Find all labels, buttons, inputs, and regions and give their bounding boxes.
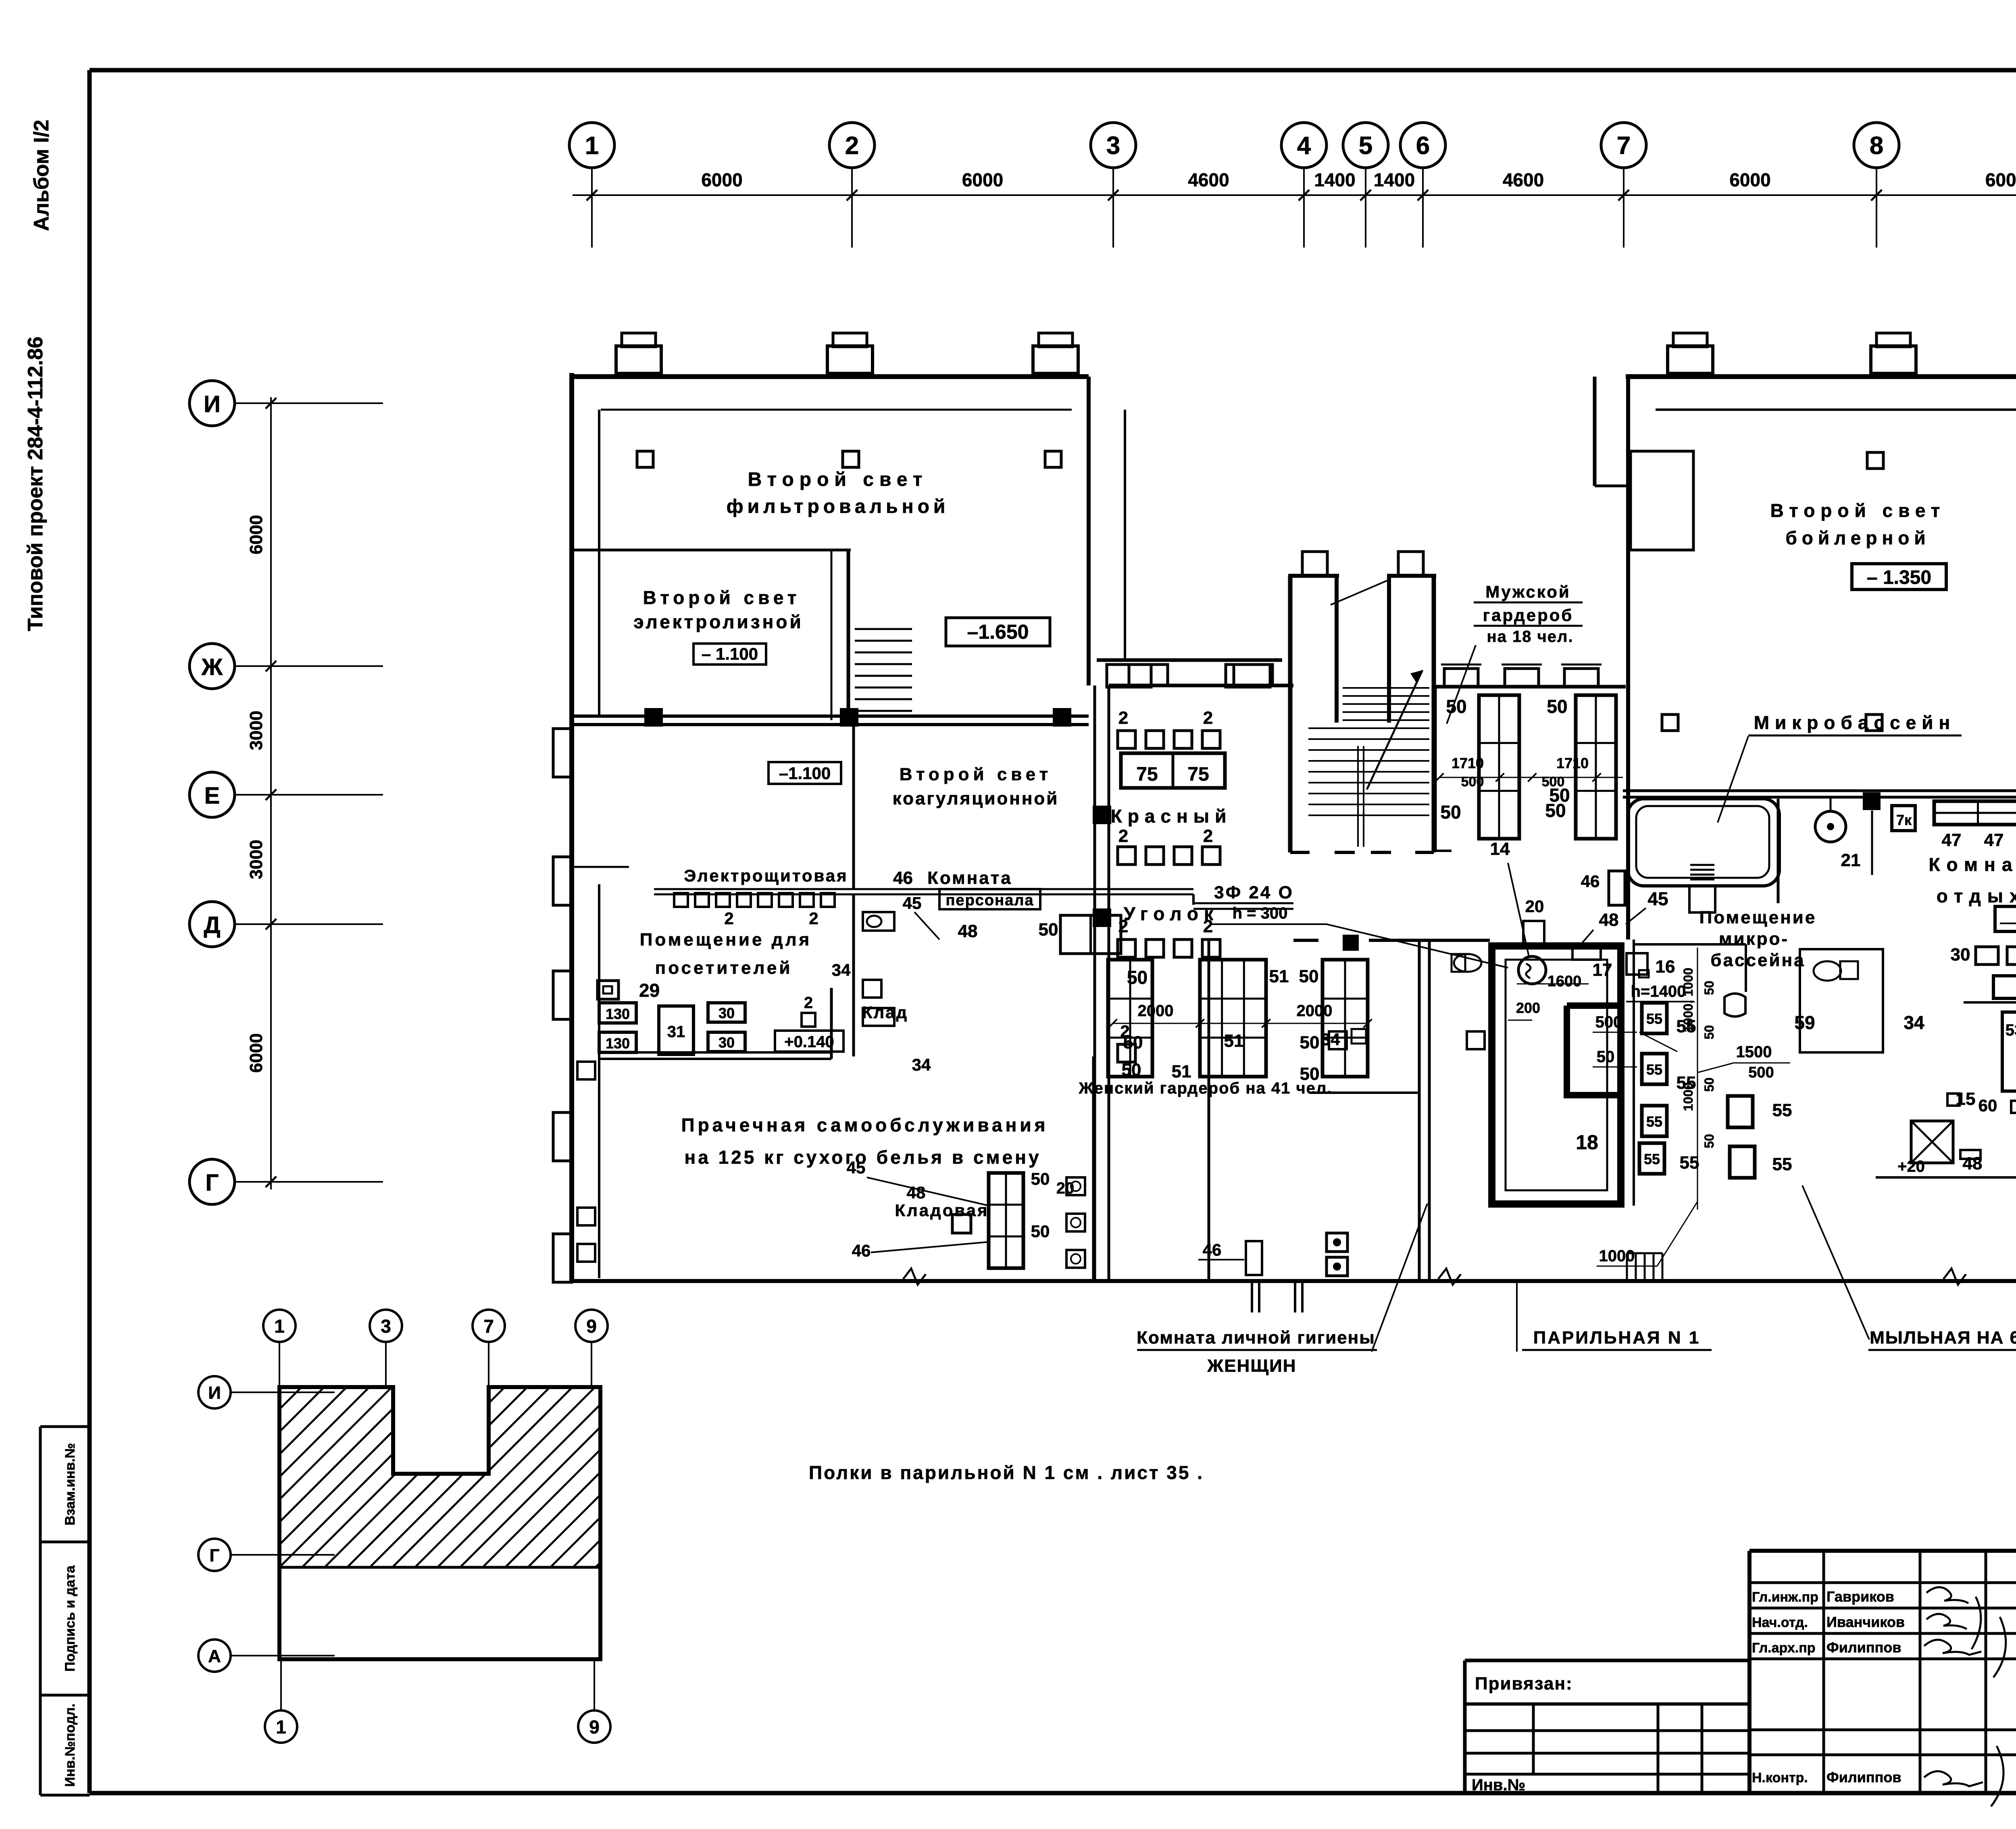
svg-text:Второй свет: Второй свет [643, 587, 801, 608]
svg-text:4600: 4600 [1503, 169, 1544, 190]
steam room walls [1492, 946, 1621, 1204]
svg-text:50: 50 [1122, 1060, 1141, 1080]
stair treads [1343, 687, 1429, 689]
svg-text:Помещение: Помещение [1699, 908, 1817, 927]
svg-text:51: 51 [1269, 967, 1289, 986]
svg-text:отдыха: отдыха [1937, 885, 2016, 906]
stove circle 2 [1518, 956, 1546, 984]
micro pool [1628, 799, 1779, 886]
hygiene room walls [1418, 940, 1421, 1281]
svg-text:50: 50 [1123, 1033, 1143, 1052]
svg-text:17: 17 [1593, 960, 1612, 980]
svg-text:бойлерной: бойлерной [1785, 527, 1930, 548]
svg-text:Прачечная самообслуживания: Прачечная самообслуживания [681, 1114, 1049, 1135]
svg-text:2: 2 [1118, 917, 1128, 936]
svg-text:34: 34 [832, 960, 851, 979]
stair arrow [1367, 670, 1422, 790]
washing room dims [1697, 948, 1698, 1210]
svg-text:50: 50 [1300, 1033, 1320, 1052]
svg-text:50: 50 [1446, 696, 1466, 717]
svg-text:4: 4 [1297, 132, 1311, 160]
svg-text:коагуляционной: коагуляционной [893, 789, 1059, 808]
signatures [1926, 1587, 1968, 1603]
svg-text:Помещение для: Помещение для [640, 930, 812, 950]
middle double wall [1093, 685, 1096, 1281]
privyazan box [1465, 1659, 1749, 1662]
axis 1 [569, 123, 614, 168]
svg-text:2: 2 [1203, 826, 1213, 846]
svg-text:51: 51 [1224, 1031, 1244, 1051]
svg-text:2: 2 [724, 909, 733, 928]
svg-text:46: 46 [1581, 872, 1600, 891]
key plan hatch [0, 1387, 1340, 1567]
svg-text:34: 34 [1904, 1012, 1924, 1033]
svg-text:2: 2 [845, 132, 859, 160]
svg-text:посетителей: посетителей [655, 958, 793, 978]
axis Г [190, 1159, 235, 1204]
svg-text:Полки в парильной N 1 см . л: Полки в парильной N 1 см . лист 35 . [809, 1462, 1204, 1483]
svg-text:3000: 3000 [246, 711, 266, 750]
lower center vestibule [1251, 1281, 1253, 1312]
svg-text:51: 51 [1172, 1062, 1191, 1081]
key plan axis circles bottom [265, 1710, 297, 1743]
svg-text:2: 2 [809, 909, 818, 928]
svg-text:Привязан:: Привязан: [1475, 1674, 1573, 1694]
svg-text:+20: +20 [1897, 1158, 1925, 1175]
svg-text:+0.140: +0.140 [784, 1033, 834, 1051]
svg-text:Комната личной гигиены: Комната личной гигиены [1137, 1328, 1375, 1348]
title block [1749, 1549, 2016, 1553]
svg-text:45: 45 [903, 894, 922, 912]
svg-text:1600: 1600 [1547, 973, 1582, 990]
svg-text:50: 50 [1702, 1134, 1716, 1148]
svg-text:45: 45 [1647, 888, 1668, 909]
svg-text:Клад: Клад [862, 1003, 908, 1022]
svg-text:55: 55 [1646, 1061, 1662, 1078]
svg-text:1500: 1500 [1736, 1043, 1772, 1061]
svg-text:55: 55 [1680, 1153, 1699, 1173]
axis И [190, 381, 235, 426]
left axis dimension line [270, 397, 272, 1189]
svg-text:50: 50 [1440, 802, 1461, 823]
svg-text:55: 55 [1772, 1154, 1792, 1174]
svg-text:34: 34 [912, 1055, 931, 1074]
svg-text:55: 55 [1772, 1100, 1792, 1120]
svg-text:50: 50 [1127, 967, 1148, 988]
corridor walls below pool room [1633, 939, 1635, 1206]
axis Ж [190, 644, 235, 689]
svg-text:ЖЕНЩИН: ЖЕНЩИН [1207, 1356, 1296, 1376]
svg-text:фильтровальной: фильтровальной [727, 496, 950, 517]
axis 5 [1343, 123, 1388, 168]
axis 6 [1400, 123, 1445, 168]
electrolysis room partition [574, 549, 851, 552]
svg-text:47: 47 [1984, 830, 2004, 850]
svg-text:500: 500 [1748, 1064, 1774, 1081]
svg-text:2: 2 [1203, 708, 1213, 728]
svg-text:6000: 6000 [246, 515, 266, 554]
sidebar stamp strip [40, 1425, 90, 1428]
svg-text:7к: 7к [1896, 812, 1912, 828]
svg-text:75: 75 [1187, 764, 1209, 785]
svg-text:46: 46 [893, 868, 913, 888]
svg-text:Инв.№подл.: Инв.№подл. [62, 1704, 78, 1787]
womens wardrobe dims 2000 [1113, 1023, 1368, 1024]
svg-text:–1.650: –1.650 [967, 621, 1029, 643]
storeroom walls [1208, 940, 1210, 1279]
svg-text:9: 9 [589, 1717, 600, 1737]
svg-text:2000: 2000 [1138, 1002, 1174, 1020]
svg-text:электролизной: электролизной [633, 611, 804, 632]
equipment 29/130/31/30 [598, 981, 619, 999]
visitors equipment row [674, 893, 688, 907]
svg-text:59: 59 [1794, 1012, 1815, 1033]
svg-text:6000: 6000 [962, 169, 1003, 190]
svg-text:55: 55 [1646, 1010, 1662, 1027]
svg-text:46: 46 [1203, 1240, 1222, 1259]
svg-text:1: 1 [274, 1316, 285, 1337]
svg-text:–1.100: –1.100 [779, 764, 831, 783]
svg-text:6000: 6000 [701, 169, 742, 190]
svg-text:Е: Е [204, 783, 220, 809]
svg-text:34: 34 [1321, 1030, 1340, 1049]
svg-text:h=1400: h=1400 [1631, 983, 1686, 1000]
fixture 21 [1815, 811, 1846, 842]
axis 4 [1281, 123, 1327, 168]
svg-text:6000: 6000 [246, 1033, 266, 1073]
svg-text:18: 18 [1576, 1131, 1598, 1154]
svg-text:50: 50 [1039, 920, 1058, 939]
svg-text:7: 7 [1617, 132, 1631, 160]
svg-text:Инв.№: Инв.№ [1472, 1776, 1525, 1794]
stair shaft walls [1288, 576, 1293, 852]
svg-text:Комната: Комната [1929, 854, 2016, 875]
svg-text:гардероб: гардероб [1483, 606, 1574, 625]
svg-text:3Ф 24 О: 3Ф 24 О [1214, 883, 1294, 902]
mark -1.650 [946, 618, 1050, 646]
svg-text:47: 47 [1942, 830, 1962, 850]
svg-text:2000: 2000 [1297, 1002, 1333, 1020]
svg-text:ПАРИЛЬНАЯ N 1: ПАРИЛЬНАЯ N 1 [1533, 1328, 1701, 1348]
building outer walls [569, 373, 574, 1281]
rest room lockers row 47 [1934, 801, 2016, 825]
svg-text:Подпись и дата: Подпись и дата [62, 1565, 78, 1672]
key plan shape [279, 1387, 600, 1659]
svg-text:3: 3 [381, 1316, 391, 1337]
top axis dimension line [573, 194, 2016, 196]
svg-text:Гавриков: Гавриков [1826, 1588, 1894, 1605]
svg-text:50: 50 [1031, 1169, 1050, 1188]
svg-text:Мужской: Мужской [1485, 582, 1570, 601]
red corner walls [1109, 684, 1293, 687]
womens wardrobe grids [1108, 960, 1152, 1077]
svg-text:50: 50 [1702, 1077, 1716, 1092]
svg-text:130: 130 [606, 1035, 630, 1052]
svg-text:Красный: Красный [1111, 806, 1232, 827]
svg-text:60: 60 [1979, 1096, 1997, 1115]
svg-text:6000: 6000 [1985, 169, 2016, 190]
shower box [1911, 1121, 1953, 1163]
svg-text:Г: Г [210, 1546, 220, 1565]
svg-text:1000: 1000 [1599, 1247, 1635, 1265]
axis Е [190, 772, 235, 817]
svg-text:2: 2 [1118, 708, 1128, 728]
svg-text:Взам.инв.№: Взам.инв.№ [62, 1443, 78, 1525]
svg-text:Альбом I/2: Альбом I/2 [30, 120, 53, 231]
electro band walls [852, 725, 855, 889]
svg-text:45: 45 [847, 1158, 866, 1177]
key plan axis circles left [198, 1376, 231, 1408]
56 benches [1995, 906, 2016, 931]
svg-text:1000: 1000 [1681, 1082, 1695, 1111]
svg-text:75: 75 [1136, 764, 1158, 785]
svg-text:200: 200 [1516, 1000, 1540, 1016]
svg-text:Иванчиков: Иванчиков [1826, 1614, 1905, 1630]
svg-text:Гл.арх.пр: Гл.арх.пр [1752, 1640, 1816, 1656]
svg-text:3000: 3000 [246, 840, 266, 879]
svg-text:48: 48 [958, 921, 978, 941]
svg-text:Второй свет: Второй свет [900, 765, 1052, 784]
svg-text:А: А [208, 1646, 221, 1666]
svg-text:50: 50 [1702, 981, 1716, 995]
svg-text:1710: 1710 [1452, 755, 1484, 771]
svg-text:1: 1 [585, 132, 599, 160]
boiler block walls [1626, 374, 2016, 379]
svg-text:46: 46 [852, 1241, 871, 1260]
svg-text:Филиппов: Филиппов [1826, 1639, 1901, 1656]
svg-text:48: 48 [907, 1183, 926, 1202]
boiler bottom double wall [1623, 790, 2016, 792]
svg-text:Кладовая: Кладовая [895, 1201, 989, 1220]
svg-text:1710: 1710 [1556, 755, 1589, 771]
visitors room walls [599, 1051, 831, 1054]
axis 8 [1854, 123, 1899, 168]
red corner equipment [1118, 731, 1135, 748]
svg-text:50: 50 [1547, 696, 1567, 717]
signature table [1749, 1581, 2016, 1584]
axis 7 [1601, 123, 1646, 168]
svg-text:50: 50 [1031, 1222, 1050, 1241]
svg-text:500: 500 [1461, 774, 1484, 790]
svg-text:Микробассейн: Микробассейн [1754, 712, 1956, 733]
svg-text:Г: Г [206, 1170, 219, 1196]
svg-text:21: 21 [1841, 850, 1861, 870]
svg-text:130: 130 [606, 1006, 630, 1022]
axis 2 [829, 123, 875, 168]
west wall fixtures [577, 1062, 595, 1079]
svg-text:Второй свет: Второй свет [1770, 500, 1946, 521]
svg-text:30: 30 [719, 1005, 735, 1021]
svg-text:7: 7 [483, 1316, 494, 1337]
svg-text:500: 500 [1595, 1013, 1622, 1031]
svg-text:Второй свет: Второй свет [748, 469, 928, 490]
mens wardrobe walls [1435, 685, 1626, 689]
svg-text:50: 50 [1597, 1048, 1615, 1066]
svg-text:на 18 чел.: на 18 чел. [1487, 628, 1573, 646]
svg-text:2: 2 [1203, 917, 1213, 936]
svg-text:И: И [208, 1383, 221, 1403]
svg-text:20: 20 [1525, 897, 1544, 916]
wc cells near visitors [863, 912, 894, 931]
svg-text:14: 14 [1490, 839, 1510, 859]
svg-text:5: 5 [1359, 132, 1372, 160]
svg-text:персонала: персонала [946, 892, 1034, 909]
svg-text:2: 2 [1118, 826, 1128, 846]
washing room fixtures 55 [1642, 1003, 1667, 1033]
wardrobe grids [1479, 695, 1519, 839]
svg-text:И: И [204, 391, 221, 417]
svg-text:16: 16 [1656, 957, 1675, 977]
svg-text:50: 50 [1299, 967, 1319, 986]
svg-text:Электрощитовая: Электрощитовая [684, 866, 848, 885]
svg-text:Комната: Комната [927, 868, 1012, 888]
svg-text:Нач.отд.: Нач.отд. [1752, 1615, 1808, 1630]
left block east wall / shaft [1087, 377, 1091, 685]
svg-text:500: 500 [1542, 774, 1565, 790]
svg-text:Типовой проект 284-4-112.86: Типовой проект 284-4-112.86 [24, 337, 47, 631]
53 cabinets [2002, 1012, 2016, 1091]
svg-text:1400: 1400 [1314, 169, 1355, 190]
svg-text:30: 30 [1951, 945, 1970, 964]
svg-text:1000, 1000: 1000, 1000 [1681, 968, 1695, 1032]
svg-text:Н.контр.: Н.контр. [1752, 1770, 1808, 1785]
svg-text:1: 1 [276, 1717, 286, 1737]
svg-text:6000: 6000 [1729, 169, 1770, 190]
svg-text:6: 6 [1416, 132, 1430, 160]
svg-text:микро-: микро- [1719, 929, 1789, 949]
svg-text:Филиппов: Филиппов [1826, 1769, 1901, 1785]
svg-text:8: 8 [1870, 132, 1883, 160]
svg-text:53: 53 [2006, 1021, 2016, 1039]
svg-text:50: 50 [1702, 1025, 1716, 1039]
svg-text:– 1.100: – 1.100 [702, 644, 758, 663]
svg-text:48: 48 [1599, 910, 1619, 930]
left block bottom double wall [572, 715, 1089, 718]
svg-text:55: 55 [1646, 1113, 1662, 1130]
wardrobe dims [1439, 777, 1623, 778]
svg-text:Женский гардероб на 41 чел.: Женский гардероб на 41 чел. [1079, 1079, 1333, 1097]
svg-text:2: 2 [804, 994, 813, 1012]
sheet border frame [90, 68, 2016, 73]
svg-text:бассейна: бассейна [1710, 950, 1805, 970]
svg-text:1400: 1400 [1374, 169, 1415, 190]
svg-text:МЫЛЬНАЯ НА 6МЕСТ: МЫЛЬНАЯ НА 6МЕСТ [1870, 1328, 2016, 1348]
svg-text:55: 55 [1644, 1151, 1660, 1167]
svg-text:30: 30 [719, 1034, 735, 1051]
svg-text:Ж: Ж [201, 654, 223, 680]
svg-text:4600: 4600 [1188, 169, 1229, 190]
axis Д [190, 902, 235, 947]
svg-text:Гл.инж.пр: Гл.инж.пр [1752, 1589, 1818, 1605]
svg-text:h = 300: h = 300 [1233, 904, 1288, 922]
svg-text:9: 9 [586, 1316, 597, 1337]
axis 3 [1091, 123, 1136, 168]
key plan axis circles top [263, 1310, 296, 1342]
service stair [855, 628, 912, 630]
svg-text:3: 3 [1106, 132, 1120, 160]
svg-text:31: 31 [667, 1023, 685, 1041]
left block top wall [572, 374, 1089, 379]
svg-text:– 1.350: – 1.350 [1867, 567, 1931, 588]
womens wardrobe walls [1343, 935, 1359, 951]
svg-text:29: 29 [639, 980, 660, 1001]
svg-text:Д: Д [204, 912, 220, 938]
